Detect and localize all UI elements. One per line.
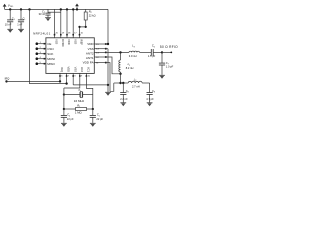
wire R2 to IREF jog <box>80 27 86 35</box>
pin labels left CE CSN SCK MOSI MISO <box>47 42 55 66</box>
svg-text:3.9 nH: 3.9 nH <box>129 54 137 58</box>
inductor L1 <box>119 52 134 83</box>
ground below C1 <box>18 29 24 32</box>
ground below C2 <box>45 18 51 21</box>
wire XC1 net <box>86 77 92 95</box>
capacitor C6 series <box>148 44 162 58</box>
capacitor C9 <box>146 83 155 102</box>
capacitor C5 <box>90 109 104 123</box>
node junction VDD7 <box>65 82 67 84</box>
chip U1 nRF24L01 body <box>46 38 94 74</box>
wire ANT1 net <box>106 57 121 74</box>
svg-text:50 Ω RFIO: 50 Ω RFIO <box>160 45 178 49</box>
wire VDD18 vertical <box>66 9 68 34</box>
svg-text:1 MΩ: 1 MΩ <box>75 110 82 114</box>
capacitor C1 <box>17 9 25 29</box>
svg-text:ANT2: ANT2 <box>86 51 94 55</box>
pin labels bottom IRQ VDD VSS XC2 XC1 <box>60 67 90 73</box>
svg-text:VDD: VDD <box>67 39 71 45</box>
node junction C8 top <box>122 82 124 84</box>
resistor R2 <box>84 9 95 27</box>
wire VDD PA net <box>106 63 114 92</box>
ground below C9 <box>147 103 153 106</box>
svg-text:IREF: IREF <box>80 39 84 45</box>
inductor L3 <box>129 44 151 58</box>
svg-text:CSN: CSN <box>47 47 53 51</box>
node junction C1 <box>20 8 22 10</box>
svg-text:XC2: XC2 <box>80 67 84 73</box>
wire VSS20 vertical <box>54 9 56 34</box>
capacitor C2 <box>39 9 51 17</box>
pin labels top VSS DVDD VDD VSS IREF <box>55 39 84 46</box>
node terminal IRQ <box>5 77 10 83</box>
ground below C4 <box>61 123 67 126</box>
svg-text:22 pF: 22 pF <box>67 117 74 121</box>
node terminals CE CSN SCK MOSI MISO <box>36 42 39 65</box>
node junction VDD15 <box>107 43 109 45</box>
svg-text:VSS: VSS <box>55 39 59 44</box>
node junction L1 top <box>119 51 121 53</box>
node junction crystal left <box>63 93 65 95</box>
svg-text:ANT1: ANT1 <box>86 56 94 60</box>
node junction VSS17 <box>72 8 74 10</box>
node label 50 Ohm RFIO <box>160 45 178 49</box>
pin stubs right numbers 15-11 <box>94 43 106 64</box>
ground VSS right <box>105 85 111 96</box>
svg-text:10 nF: 10 nF <box>5 23 12 27</box>
svg-text:33 nF: 33 nF <box>39 12 46 16</box>
wire VSS14 down <box>106 49 108 85</box>
svg-text:IRQ: IRQ <box>5 77 10 81</box>
wire IRQ net <box>7 77 62 83</box>
wire RF output port <box>162 52 172 54</box>
svg-text:VSS: VSS <box>73 39 77 44</box>
svg-text:MISO: MISO <box>47 62 55 66</box>
svg-text:DVDD: DVDD <box>61 39 65 46</box>
svg-text:VDD PA: VDD PA <box>83 61 94 65</box>
node junction L1 bottom <box>119 73 121 75</box>
node junction C3 <box>9 8 11 10</box>
wire VSS17 vertical <box>72 9 74 34</box>
crystal X1 <box>64 88 93 103</box>
svg-text:1.0 pF: 1.0 pF <box>166 65 174 69</box>
wire crystal left leg <box>63 88 65 109</box>
svg-text:4.7 pF: 4.7 pF <box>146 97 154 101</box>
svg-text:8.2 nH: 8.2 nH <box>126 66 134 70</box>
node junction left branch <box>28 8 30 10</box>
ground below C3 <box>7 29 13 32</box>
ground below C5 <box>90 123 96 126</box>
node junction DVDD19 <box>60 8 62 10</box>
ground below C7 <box>159 75 165 78</box>
resistor R1 <box>64 103 93 114</box>
svg-text:16 MHz: 16 MHz <box>74 99 85 103</box>
svg-text:22 pF: 22 pF <box>96 117 103 121</box>
capacitor C4 <box>61 109 74 123</box>
node junction R1 left <box>63 108 65 110</box>
wire VSS8 ground run <box>73 77 108 85</box>
pin labels right VDD VSS ANT2 ANT1 VDD PA <box>83 42 95 65</box>
wire XC2 net <box>64 77 80 88</box>
capacitor C8 <box>120 83 128 102</box>
svg-text:NRF24L01: NRF24L01 <box>33 32 51 36</box>
svg-text:VDD: VDD <box>67 67 71 73</box>
node junction R1 right <box>92 108 94 110</box>
svg-text:DD: DD <box>10 6 14 8</box>
ground below C8 <box>120 103 126 106</box>
svg-text:22 kΩ: 22 kΩ <box>89 14 96 18</box>
svg-text:1.5 pF: 1.5 pF <box>148 54 156 58</box>
pin stubs bottom numbers 6-10 <box>59 73 91 77</box>
wire DVDD link <box>48 11 61 13</box>
svg-text:SCK: SCK <box>47 52 53 56</box>
wire crystal right leg <box>92 95 94 110</box>
wire VDD rail top <box>5 8 108 10</box>
node junction R2 jog <box>78 26 86 28</box>
svg-text:IRQ: IRQ <box>60 67 64 72</box>
wire VDD left margin <box>30 9 67 83</box>
svg-text:MOSI: MOSI <box>47 57 55 61</box>
svg-text:2.7 nH: 2.7 nH <box>132 84 140 88</box>
pin wires left numbers 1-5 <box>37 42 46 65</box>
pin stubs top numbers 20-16 <box>54 32 84 37</box>
node junction RF out <box>161 51 163 53</box>
svg-text:VDD: VDD <box>87 42 94 46</box>
node junction L2 run <box>119 82 121 84</box>
node junction VDD18 <box>66 8 68 10</box>
svg-text:XC1: XC1 <box>87 67 91 73</box>
wire VDD15 to rail <box>106 9 108 44</box>
power VDD symbol top-center <box>75 4 79 10</box>
svg-text:2.2 nF: 2.2 nF <box>120 97 128 101</box>
capacitor C3 <box>5 9 15 29</box>
svg-text:1 nF: 1 nF <box>17 23 23 27</box>
label NRF24L01 <box>33 32 51 36</box>
capacitor C7 shunt <box>159 52 174 75</box>
svg-text:VSS: VSS <box>88 47 94 51</box>
svg-text:VSS: VSS <box>73 67 77 72</box>
svg-text:CE: CE <box>47 42 51 46</box>
inductor L2 <box>114 77 150 88</box>
node junction VDD arrow <box>76 8 78 10</box>
power VDD symbol top-left <box>3 3 14 9</box>
wire DVDD19 vertical <box>60 9 62 34</box>
wire ANT2 net <box>106 51 129 53</box>
node junction VSS run <box>107 84 109 86</box>
